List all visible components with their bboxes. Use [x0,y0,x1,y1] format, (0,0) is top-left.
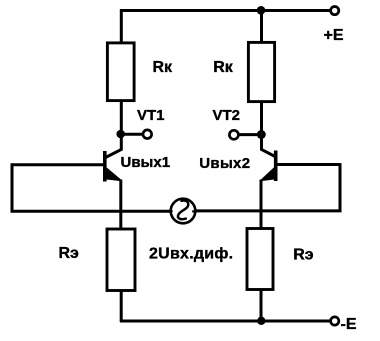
wire VT2 base [278,163,341,166]
node junction dot VT1 collector [116,130,125,139]
wire stub inside source right [192,210,194,212]
svg-text:VT2: VT2 [213,107,241,124]
wire VT1 base [12,163,103,166]
transistor VT2 base bar [274,151,278,182]
svg-text:-E: -E [341,316,357,333]
svg-text:Uвых2: Uвых2 [199,155,250,172]
svg-text:+E: +E [324,27,344,44]
transistor VT1 base bar [103,151,107,182]
terminal Uvyh1 [143,130,152,139]
svg-text:Rэ: Rэ [293,246,314,263]
node junction dot VT2 collector [257,130,266,139]
svg-text:2Uвх.диф.: 2Uвх.диф. [149,246,233,263]
resistor Rk1 [107,43,134,101]
wire stub inside source left [170,210,173,212]
wire VT2 emitter down [260,180,263,228]
source 2Uvx.dif circle [171,199,196,224]
wire stub to output 1 [121,133,143,136]
wire Re2 to bottom rail [260,290,263,322]
svg-text:Rк: Rк [153,59,174,76]
source tilde squiggle [178,201,188,220]
node junction dot bottom rail [257,317,265,325]
wire VT1 emitter down [119,180,122,229]
wire left base loop [12,163,170,211]
terminal +E [331,7,339,15]
transistor VT1 emitter arrow [107,168,122,180]
wire right base loop [196,163,340,211]
wire Re1 to bottom rail [120,291,123,322]
terminal -E [331,317,339,325]
wire bottom rail -E [120,320,330,323]
wire left drop from top rail to Rk1 [120,9,123,41]
svg-text:Rк: Rк [213,59,234,76]
svg-text:Uвых1: Uвых1 [121,154,171,171]
terminal Uvyh2 [229,130,238,139]
wire top rail +E [120,9,330,12]
svg-text:VT1: VT1 [137,107,165,124]
wire top rail drop to Rk2 [260,10,263,41]
wire VT1 collector [106,101,122,158]
wire VT2 collector [262,101,278,158]
wire stub to output 2 [239,133,261,136]
resistor Re1 [107,229,135,291]
resistor Re2 [247,229,273,290]
node junction dot top rail [257,6,266,15]
resistor Rk2 [248,42,274,101]
transistor VT2 emitter arrow [261,168,274,180]
svg-text:Rэ: Rэ [59,245,80,262]
